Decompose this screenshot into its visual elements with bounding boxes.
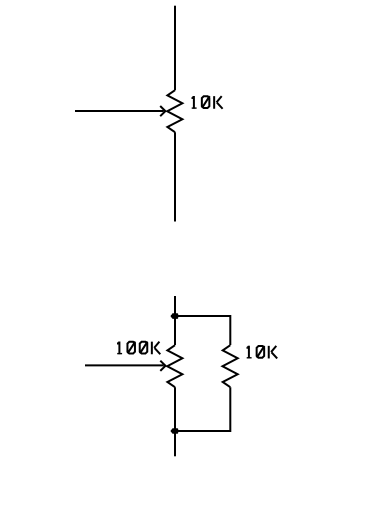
resistor body of resistor R3 [223,345,238,387]
wire bottom lead of potentiometer R2 [174,387,176,456]
wire from top junction to resistor R3 [175,316,230,345]
wiper arrow of potentiometer R1 [75,106,165,116]
wiper arrow of potentiometer R2 [85,361,166,371]
resistor body of potentiometer R2 [167,345,182,387]
wire bottom lead of potentiometer R1 [174,132,176,221]
wire top lead of potentiometer R1 [174,6,176,91]
value label 10K of potentiometer R1 [192,96,223,109]
junction node bottom [171,428,179,434]
wire from resistor R3 to bottom junction [175,387,230,431]
value label 100K of potentiometer R2 [117,342,160,355]
resistor body of potentiometer R1 [167,90,182,132]
junction node top [171,313,179,319]
wire top lead of potentiometer R2 [174,296,176,345]
value label 10K of resistor R3 [247,346,278,359]
